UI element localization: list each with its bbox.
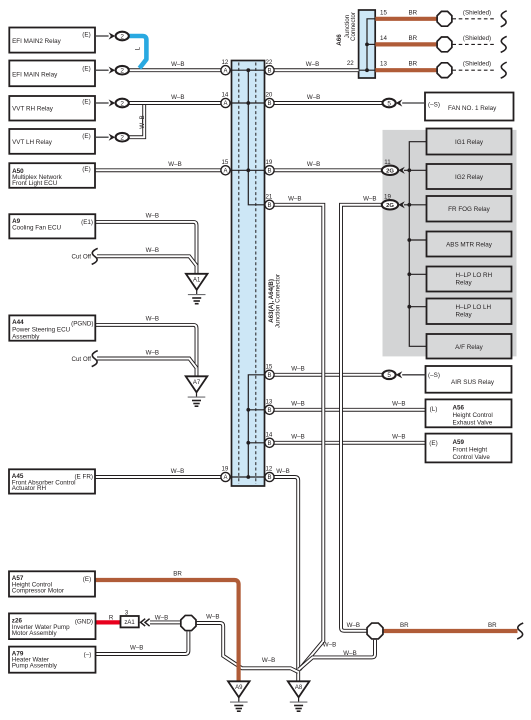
svg-text:W–B: W–B — [276, 468, 289, 475]
svg-text:W–B: W–B — [307, 94, 320, 101]
wire W-B A79 pump to octagon joint — [96, 631, 189, 654]
svg-text:W–B: W–B — [363, 196, 376, 203]
svg-text:A66: A66 — [336, 34, 343, 46]
svg-text:Relay: Relay — [456, 280, 473, 287]
svg-text:B: B — [267, 68, 271, 74]
svg-text:Actuator RH: Actuator RH — [12, 485, 47, 492]
wire W-B B15 to air sus connector — [274, 373, 383, 377]
connector oval 5 AIR SUS relay — [383, 371, 396, 380]
svg-text:(–S): (–S) — [428, 102, 440, 109]
connector internal wire row 15-19 — [226, 169, 270, 171]
wire W-B zA1 to octagon joint — [150, 620, 180, 624]
svg-text:(PGND): (PGND) — [71, 321, 93, 328]
gray relay panel background — [383, 130, 517, 357]
svg-text:2G: 2G — [386, 169, 394, 175]
svg-text:Exhaust Valve: Exhaust Valve — [453, 420, 493, 427]
svg-text:B: B — [267, 475, 271, 481]
wire stub EFI MAIN relay — [95, 69, 109, 71]
junction dot bus/ABS MTR — [407, 238, 411, 242]
wire stub VVT LH relay — [95, 136, 109, 138]
svg-text:zA1: zA1 — [124, 620, 135, 626]
pin B15 — [265, 370, 274, 379]
svg-text:W–B: W–B — [171, 468, 184, 475]
continuation squiggle row 15 — [501, 11, 507, 27]
wire BR right octagon to edge — [383, 629, 518, 633]
connector internal wire row 12-22 — [226, 69, 270, 71]
svg-text:A/F Relay: A/F Relay — [455, 344, 483, 351]
svg-text:Connector: Connector — [350, 12, 357, 41]
connector internal wire row 14-20 — [226, 102, 270, 104]
svg-text:B: B — [267, 373, 271, 379]
shield connector octagon row 13 — [437, 63, 452, 78]
svg-text:ABS MTR Relay: ABS MTR Relay — [446, 241, 493, 248]
svg-text:(Shielded): (Shielded) — [463, 9, 491, 16]
component box A50 Multiplex Network Front Light ECU — [9, 163, 95, 188]
svg-text:A56: A56 — [453, 405, 465, 412]
connector internal bus lower segment — [248, 375, 269, 477]
svg-text:13: 13 — [380, 60, 387, 67]
svg-text:W–B: W–B — [155, 614, 168, 621]
wire W-B 2G pin19 down to octagon joint — [341, 205, 382, 631]
connector arrow EFI MAIN relay — [109, 67, 116, 74]
svg-text:(E): (E) — [82, 66, 90, 73]
svg-text:11: 11 — [384, 159, 391, 166]
svg-text:20: 20 — [265, 92, 272, 99]
svg-text:W–B: W–B — [139, 115, 146, 128]
svg-text:W–B: W–B — [291, 401, 304, 408]
wire stub IG2 relay — [404, 169, 427, 171]
svg-text:Pump Assembly: Pump Assembly — [12, 662, 58, 669]
A66 internal stub pin 14 — [367, 43, 375, 45]
junction dot A66 pin14 — [365, 43, 369, 47]
svg-text:(E1): (E1) — [81, 219, 93, 226]
wire stub FR FOG relay — [404, 204, 427, 206]
wire W-B VVT RH relay to A14 — [129, 101, 221, 105]
wire stub VVT RH relay — [95, 102, 109, 104]
junction dot bus/H-LP LO LH — [407, 305, 411, 309]
pin B14 — [265, 438, 274, 447]
svg-text:B: B — [267, 408, 271, 414]
svg-text:A44: A44 — [12, 319, 24, 326]
pin A15 — [221, 166, 230, 175]
svg-text:22: 22 — [347, 60, 354, 67]
pin B19 — [265, 166, 274, 175]
svg-text:Junction Connector: Junction Connector — [275, 274, 282, 328]
svg-text:VVT RH Relay: VVT RH Relay — [12, 106, 54, 113]
connector arrow AIR SUS relay — [396, 371, 403, 378]
shielded dashed line row 15 — [452, 18, 496, 20]
svg-text:W–B: W–B — [146, 213, 159, 220]
svg-text:IG1 Relay: IG1 Relay — [455, 139, 484, 146]
junction dot bus/IG2 — [407, 168, 411, 172]
junction connector A66 body — [359, 10, 376, 78]
connector internal bus upper segment — [248, 70, 269, 205]
svg-text:2: 2 — [120, 100, 124, 107]
connector arrow 2G pin19 — [398, 201, 405, 208]
wire stub FAN NO.1 relay — [402, 102, 425, 104]
svg-text:A7: A7 — [193, 380, 201, 386]
svg-text:14: 14 — [380, 35, 387, 42]
wire stub AIR SUS relay — [402, 374, 425, 376]
wire stub H-LP LO LH relay — [409, 306, 426, 308]
svg-text:(E): (E) — [82, 32, 90, 39]
junction dot bus/H-LP LO RH — [407, 272, 411, 276]
shielded dashed line row 14 — [452, 43, 496, 45]
wire W-B B13 to A56 — [274, 408, 426, 412]
wire W-B B12 to ground A8 — [274, 477, 298, 681]
wire W-B A9 cooling fan ECU to ground A1 — [96, 222, 197, 274]
wire W-B octagon joint to ground A8 — [197, 623, 299, 672]
junction dot bus row13 — [246, 408, 250, 412]
ground A1 — [186, 274, 208, 290]
svg-text:A: A — [223, 68, 227, 74]
wire W-B B20 to fan relay connector — [274, 101, 383, 105]
junction dot bus row14-20 — [246, 101, 250, 105]
svg-text:BR: BR — [173, 571, 182, 578]
component box VVT LH Relay — [9, 129, 95, 154]
svg-text:Control Valve: Control Valve — [453, 454, 491, 461]
svg-text:A8: A8 — [295, 685, 303, 691]
svg-text:AIR SUS Relay: AIR SUS Relay — [451, 379, 495, 386]
component box EFI MAIN2 Relay — [9, 28, 95, 53]
svg-text:Front Height: Front Height — [453, 447, 488, 454]
wire BR A66 pin14 shielded — [375, 42, 436, 46]
svg-text:2: 2 — [120, 135, 124, 142]
ground A9 (brown wire) — [228, 681, 250, 697]
svg-text:B: B — [267, 101, 271, 107]
svg-text:Relay: Relay — [456, 312, 473, 319]
connector arrow EFI MAIN2 relay — [109, 32, 116, 39]
relay box IG1 — [427, 129, 512, 155]
svg-text:14: 14 — [265, 432, 272, 439]
splice octagon right (height control) — [367, 623, 383, 639]
svg-text:Assembly: Assembly — [12, 333, 40, 340]
svg-text:W–B: W–B — [130, 645, 143, 652]
label L blue wire — [134, 46, 141, 50]
component box A56 Height Control Exhaust Valve — [426, 399, 512, 427]
relay box H-LP LO RH — [427, 267, 512, 292]
wire W-B B22 to A66 pin22 — [274, 68, 359, 72]
label W-B VVT LH riser — [139, 115, 146, 128]
splice octagon left (water pumps) — [181, 615, 196, 630]
svg-text:(E): (E) — [82, 133, 90, 140]
connector arrow 2G pin11 — [398, 167, 405, 174]
pin A19 — [221, 472, 230, 481]
svg-text:B: B — [267, 441, 271, 447]
wire W-B A44 cut off to ground A7 — [97, 359, 197, 368]
component box z26 Inverter Water Pump Motor Assembly — [9, 613, 96, 639]
connector internal wire row 13 — [248, 409, 269, 411]
connector internal wire row 19-12 — [226, 476, 270, 478]
svg-text:W–B: W–B — [392, 401, 405, 408]
component box A9 Cooling Fan ECU — [9, 214, 95, 238]
svg-text:15: 15 — [265, 364, 272, 371]
svg-text:(E): (E) — [83, 576, 91, 583]
wire stub H-LP LO RH relay — [409, 273, 426, 275]
svg-text:(Shielded): (Shielded) — [463, 61, 491, 68]
svg-text:14: 14 — [221, 92, 228, 99]
svg-text:B: B — [267, 169, 271, 175]
svg-text:(L): (L) — [430, 406, 438, 413]
wire BR A57 compressor motor to ground A9 — [95, 580, 239, 681]
connector oval 2G pin11 — [382, 166, 398, 175]
svg-text:Motor Assembly: Motor Assembly — [12, 630, 58, 637]
wire stub ABS MTR relay — [409, 239, 426, 241]
component box A79 Heater Water Pump Assembly — [9, 647, 96, 673]
connector oval 2 EFI MAIN relay — [116, 66, 129, 75]
svg-text:2G: 2G — [386, 203, 394, 209]
svg-text:W–B: W–B — [171, 94, 184, 101]
junction dot bus row14b — [246, 441, 250, 445]
continuation squiggle row 13 — [501, 62, 507, 78]
wire W-B A44 ECU to ground A7 — [96, 325, 197, 376]
wire W-B VVT LH relay riser — [129, 105, 144, 138]
svg-text:Cut Off: Cut Off — [72, 254, 92, 261]
relay panel bus wire — [409, 142, 426, 347]
svg-text:(E FR): (E FR) — [74, 474, 93, 481]
svg-text:BR: BR — [409, 10, 418, 17]
svg-text:FR FOG Relay: FR FOG Relay — [448, 206, 490, 213]
svg-text:Height Control: Height Control — [453, 412, 493, 419]
cut off squiggle A9 — [92, 248, 98, 264]
svg-text:(–S): (–S) — [428, 372, 440, 379]
svg-text:W–B: W–B — [291, 366, 304, 373]
svg-text:Compressor Motor: Compressor Motor — [12, 587, 64, 594]
svg-text:EFI MAIN Relay: EFI MAIN Relay — [12, 71, 58, 78]
A66 internal wire 22-13 — [359, 69, 376, 71]
svg-text:A1: A1 — [193, 277, 201, 283]
svg-text:W–B: W–B — [146, 349, 159, 356]
svg-text:W–B: W–B — [206, 614, 219, 621]
svg-text:15: 15 — [380, 10, 387, 17]
connector oval 2 EFI MAIN2 relay — [116, 32, 129, 41]
svg-text:W–B: W–B — [171, 61, 184, 68]
svg-text:R: R — [109, 614, 114, 621]
component box EFI MAIN Relay — [9, 61, 95, 87]
svg-text:W–B: W–B — [323, 642, 336, 649]
svg-text:BR: BR — [409, 60, 418, 67]
wire BR A66 pin15 shielded — [375, 17, 436, 21]
pin B21 — [265, 200, 274, 209]
component box A44 Power Steering ECU — [9, 315, 95, 340]
svg-text:19: 19 — [221, 466, 228, 473]
A66 internal bus — [367, 19, 375, 70]
svg-text:Cooling Fan ECU: Cooling Fan ECU — [12, 225, 61, 232]
connector oval 2G pin19 — [382, 200, 398, 209]
svg-text:2: 2 — [120, 33, 124, 40]
component box A57 Height Control Compressor Motor — [9, 571, 95, 596]
pin A12 — [221, 66, 230, 75]
continuation squiggle BR bottom right — [517, 623, 523, 639]
svg-text:EFI MAIN2 Relay: EFI MAIN2 Relay — [12, 38, 61, 45]
connector oval 5 FAN NO.1 relay — [383, 99, 396, 108]
svg-text:W–B: W–B — [347, 622, 360, 629]
svg-text:12: 12 — [221, 59, 228, 66]
svg-text:A: A — [223, 169, 227, 175]
svg-text:BR: BR — [409, 35, 418, 42]
wire R z26 inverter pump — [96, 620, 121, 624]
svg-text:(E): (E) — [429, 440, 437, 447]
svg-text:2: 2 — [120, 68, 124, 75]
svg-text:15: 15 — [221, 159, 228, 166]
svg-text:IG2 Relay: IG2 Relay — [455, 174, 484, 181]
svg-text:A9: A9 — [235, 685, 243, 691]
junction dot bus row19-12 — [246, 475, 250, 479]
wire W-B B14 to A59 — [274, 441, 426, 445]
svg-text:H–LP LO LH: H–LP LO LH — [456, 304, 492, 311]
component box AIR SUS Relay — [426, 366, 512, 393]
svg-text:W–B: W–B — [343, 650, 356, 657]
svg-text:Cut Off: Cut Off — [72, 356, 92, 363]
junction dot bus row12-22 — [246, 68, 250, 72]
svg-text:L: L — [134, 46, 141, 50]
wire W-B A50 ECU to A15 — [95, 168, 221, 172]
wire W-B A9 cut off to ground A1 — [97, 256, 197, 265]
svg-text:19: 19 — [384, 194, 391, 201]
component box FAN NO. 1 Relay — [425, 93, 514, 121]
svg-text:W–B: W–B — [307, 161, 320, 168]
svg-text:(–): (–) — [84, 652, 92, 659]
svg-text:19: 19 — [265, 159, 272, 166]
pin A14 — [221, 98, 230, 107]
component box A45 Front Absorber Control Actuator RH — [9, 469, 95, 493]
shield connector octagon row 15 — [437, 11, 452, 26]
ground A7 — [186, 376, 208, 392]
svg-text:BR: BR — [400, 622, 409, 629]
svg-text:H–LP LO RH: H–LP LO RH — [456, 272, 493, 279]
connector box zA1 — [121, 616, 139, 627]
svg-text:W–B: W–B — [288, 196, 301, 203]
component box A59 Front Height Control Valve — [426, 434, 512, 463]
double chevron connector z26 — [141, 619, 150, 626]
svg-text:W–B: W–B — [306, 61, 319, 68]
svg-text:3: 3 — [125, 609, 129, 616]
svg-text:(Shielded): (Shielded) — [463, 35, 491, 42]
svg-text:W–B: W–B — [146, 316, 159, 323]
junction dot bus/FR FOG — [407, 203, 411, 207]
shield connector octagon row 14 — [437, 37, 452, 52]
wire L blue EFI MAIN2 jumper — [129, 36, 147, 68]
connector oval 2 VVT LH relay — [116, 133, 129, 142]
A66 label — [336, 34, 343, 46]
pin B22 — [265, 66, 274, 75]
pin B12 — [265, 472, 274, 481]
wire W-B B21 down to ground A8 — [274, 205, 324, 670]
svg-text:A: A — [223, 101, 227, 107]
svg-text:(GND): (GND) — [75, 619, 93, 626]
component box VVT RH Relay — [9, 96, 95, 121]
connector arrow VVT LH relay — [109, 134, 116, 141]
svg-text:A: A — [223, 475, 227, 481]
cut off squiggle A44 — [92, 351, 98, 367]
wire W-B right octagon to ground A8 — [299, 640, 375, 670]
svg-text:W–B: W–B — [146, 247, 159, 254]
svg-text:12: 12 — [265, 466, 272, 473]
pin B13 — [265, 405, 274, 414]
relay box IG2 — [427, 164, 512, 189]
pin B20 — [265, 98, 274, 107]
relay box FR FOG — [427, 196, 512, 222]
ground A8 — [288, 681, 310, 697]
svg-text:W–B: W–B — [168, 161, 181, 168]
svg-text:(E): (E) — [82, 99, 90, 106]
continuation squiggle row 14 — [501, 36, 507, 52]
svg-text:FAN NO. 1 Relay: FAN NO. 1 Relay — [448, 105, 497, 112]
svg-text:Front Light ECU: Front Light ECU — [12, 180, 58, 187]
junction connector A63(A) A64(B) body — [232, 61, 265, 487]
svg-text:21: 21 — [265, 194, 272, 201]
junction dot bus row15-19 — [246, 168, 250, 172]
wire W-B EFI MAIN relay to A12 — [129, 68, 221, 72]
junction dot A66 pin13 — [365, 68, 369, 72]
svg-text:5: 5 — [387, 100, 391, 107]
connector oval 2 VVT RH relay — [116, 99, 129, 108]
svg-text:W–B: W–B — [392, 434, 405, 441]
relay box H-LP LO LH — [427, 299, 512, 325]
wire W-B B19 to 2G pin11 — [274, 168, 382, 172]
svg-text:W–B: W–B — [262, 657, 275, 664]
svg-text:W–B: W–B — [291, 434, 304, 441]
junction connector A63/A64 label — [268, 274, 282, 328]
svg-text:B: B — [267, 203, 271, 209]
svg-text:22: 22 — [265, 59, 272, 66]
svg-text:(E): (E) — [82, 166, 90, 173]
wire stub EFI MAIN2 relay — [95, 35, 109, 37]
connector arrow FAN NO.1 relay — [396, 99, 403, 106]
relay box ABS MTR — [427, 232, 512, 257]
connector internal wire row 14b — [248, 442, 269, 444]
svg-text:13: 13 — [265, 399, 272, 406]
svg-text:A59: A59 — [453, 439, 465, 446]
shielded dashed line row 13 — [452, 69, 496, 71]
svg-text:VVT LH Relay: VVT LH Relay — [12, 139, 53, 146]
wire BR A66 pin13 shielded — [375, 68, 436, 72]
wire W-B A45 actuator to A19 — [95, 475, 221, 479]
relay box A/F — [427, 334, 512, 359]
svg-text:5: 5 — [387, 372, 391, 379]
svg-text:BR: BR — [488, 622, 497, 629]
connector arrow VVT RH relay — [109, 99, 116, 106]
